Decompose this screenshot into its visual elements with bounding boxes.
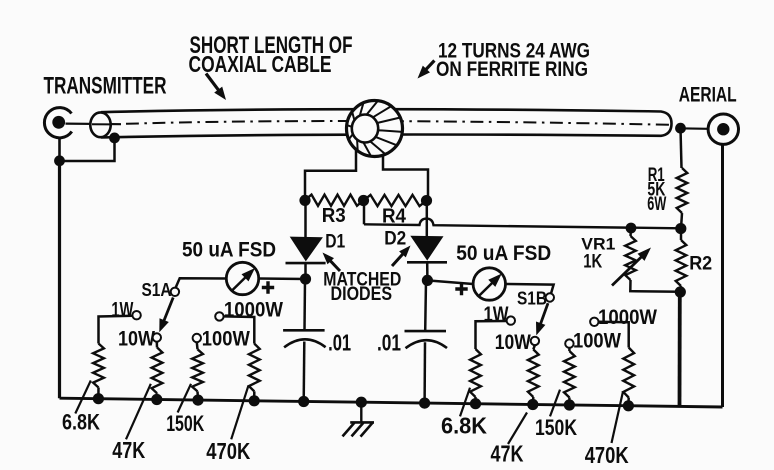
svg-text:S1A: S1A <box>142 280 172 300</box>
node junction 6.8K left on bus <box>93 393 104 404</box>
svg-text:R4: R4 <box>382 206 407 228</box>
svg-text:6.8K: 6.8K <box>62 409 100 434</box>
wire aerial drop right side <box>721 145 724 407</box>
svg-text:100W: 100W <box>202 326 251 350</box>
resistor R3 <box>305 195 364 206</box>
node junction 47K right on bus <box>527 399 538 410</box>
node junction R2 bottom <box>675 286 686 297</box>
leader slash 470K right <box>612 392 624 444</box>
wire 1000W contact to 470K left <box>224 316 255 343</box>
wire C1 bottom lead <box>302 342 305 402</box>
svg-text:6.8K: 6.8K <box>441 412 487 438</box>
wire D1 column upper <box>304 200 307 237</box>
connector J1 transmitter socket <box>44 108 71 138</box>
wire R3/R4 midpoint drop <box>363 201 366 225</box>
svg-text:47K: 47K <box>112 437 145 463</box>
switch contact 10W left <box>153 333 161 341</box>
resistor 6.8K right <box>470 349 481 397</box>
wire R1 top lead <box>681 128 682 168</box>
node junction 150K left on bus <box>192 395 203 406</box>
annotation arrow to D2 <box>392 251 406 266</box>
node junction 47K left on bus <box>151 394 162 405</box>
resistor 6.8K left <box>93 344 104 388</box>
wire D1 junction down to C1 <box>303 279 306 330</box>
node junction D2 cathode <box>422 275 433 286</box>
switch contact 100W left <box>193 334 201 342</box>
svg-text:.01: .01 <box>328 329 351 355</box>
resistor 150K left <box>192 349 203 391</box>
wire 100W contact to 150K left <box>196 342 199 349</box>
wire M2 to D2 junction <box>427 280 473 284</box>
wire 100W contact to 150K right <box>568 348 571 351</box>
switch S1A pole contact <box>171 288 179 296</box>
wire cable end to aerial connector <box>678 127 708 130</box>
connector J2 aerial socket <box>708 114 738 144</box>
svg-text:.01: .01 <box>377 329 401 355</box>
leader slash 150K right <box>550 390 560 417</box>
switch contact 100W right <box>565 339 573 347</box>
wire M1 to S1A pole <box>176 278 227 288</box>
svg-text:ON FERRITE RING: ON FERRITE RING <box>436 58 588 81</box>
node junction C1 on bus <box>298 396 309 407</box>
leader slash 470K left <box>231 386 248 440</box>
wire left ground rail down <box>58 137 61 161</box>
annotation arrow to coax cable <box>206 74 221 94</box>
svg-text:D1: D1 <box>325 231 345 252</box>
meter M1 50uA <box>226 262 258 294</box>
svg-text:50 uA FSD: 50 uA FSD <box>456 242 551 265</box>
node junction R3 left <box>299 195 310 206</box>
svg-text:470K: 470K <box>206 438 250 464</box>
node junction VR1 top <box>626 223 637 234</box>
svg-text:TRANSMITTER: TRANSMITTER <box>44 73 167 100</box>
resistor R2 <box>676 240 687 286</box>
resistor 150K right <box>564 351 575 398</box>
wire M1 to D1 junction <box>259 277 306 280</box>
diode D1 <box>290 237 323 262</box>
wire R1 bottom lead <box>681 213 682 229</box>
svg-text:R2: R2 <box>689 252 712 274</box>
wire coax shield to transmitter ground <box>60 138 115 161</box>
svg-text:470K: 470K <box>585 442 629 468</box>
leader slash 6.8K right <box>460 388 470 417</box>
resistor 47K left <box>152 347 163 393</box>
svg-text:AERIAL: AERIAL <box>679 83 737 106</box>
node junction 150K right on bus <box>564 399 575 410</box>
wire D2 junction down to C2 <box>424 280 427 331</box>
polarity plus left <box>262 281 274 293</box>
wire D2 cathode to junction <box>426 262 429 280</box>
svg-text:10W: 10W <box>118 326 156 350</box>
capacitor C1 <box>283 329 325 332</box>
leader slash 47K right <box>508 413 527 445</box>
wire bottom ground bus <box>60 398 723 407</box>
svg-text:150K: 150K <box>535 415 577 440</box>
wire centre conductor through left ellipse <box>92 123 112 125</box>
node junction R1/R2 <box>675 223 686 234</box>
switch S1B wiper arm <box>539 303 548 328</box>
switch contact 1W left <box>132 311 140 319</box>
resistor R4 <box>364 195 427 206</box>
diode D2 <box>410 236 443 261</box>
switch contact 1W right <box>507 316 515 324</box>
node junction D1 cathode <box>300 273 311 284</box>
polarity plus right <box>455 283 467 295</box>
ferrite ring toroid T1 <box>347 101 403 157</box>
svg-text:S1B: S1B <box>517 289 547 309</box>
svg-text:1W: 1W <box>111 298 133 322</box>
wire coax centre dash-dot line <box>126 121 670 125</box>
svg-text:COAXIAL CABLE: COAXIAL CABLE <box>189 51 332 77</box>
node junction coax end / aerial <box>675 123 686 134</box>
switch contact 10W right <box>531 337 539 345</box>
node junction R3/R4 mid <box>358 195 369 206</box>
node junction 470K left on bus <box>249 395 260 406</box>
wire D2 column upper <box>426 201 429 236</box>
node junction on coax shield left <box>109 133 120 144</box>
potentiometer VR1 arrow <box>612 253 645 285</box>
node junction 470K right on bus <box>623 400 634 411</box>
leader slash 150K left <box>178 384 191 413</box>
svg-text:1K: 1K <box>583 250 602 272</box>
capacitor C2 <box>405 330 447 333</box>
resistor R1 <box>677 168 688 213</box>
resistor 47K right <box>528 349 539 397</box>
svg-text:100W: 100W <box>573 329 622 353</box>
coax cable left end ellipse <box>90 112 110 137</box>
node junction left ground corner <box>54 155 65 166</box>
svg-text:D2: D2 <box>384 228 406 249</box>
potentiometer VR1 <box>625 236 636 280</box>
ground chassis symbol <box>360 402 362 422</box>
annotation arrow to ferrite ring <box>423 61 435 73</box>
svg-text:R3: R3 <box>322 205 346 227</box>
switch S1A wiper arm <box>162 298 173 326</box>
node junction C2 on bus <box>419 398 430 409</box>
svg-text:10W: 10W <box>495 330 532 354</box>
wire transmitter centre conductor <box>66 122 122 125</box>
wire 1W contact to 6.8K right <box>476 321 507 349</box>
svg-text:150K: 150K <box>166 411 204 436</box>
leader slash 47K left <box>126 384 151 440</box>
wire 10W contact to 47K left <box>156 342 159 348</box>
wire sense line with hop over D2 column <box>364 219 681 229</box>
svg-text:6W: 6W <box>647 194 666 215</box>
coax cable body <box>101 109 672 137</box>
svg-text:47K: 47K <box>491 441 524 467</box>
switch contact 1000W left <box>215 312 223 320</box>
svg-text:DIODES: DIODES <box>331 284 393 305</box>
node junction 6.8K right on bus <box>470 398 481 409</box>
node junction ground on bus <box>356 397 367 408</box>
svg-text:50 uA FSD: 50 uA FSD <box>182 238 276 261</box>
meter M2 50uA <box>473 268 505 300</box>
wire C2 bottom lead <box>423 342 426 403</box>
switch S1B pole contact <box>546 293 554 301</box>
wire 1W contact to 6.8K left <box>99 316 133 344</box>
resistor 470K right <box>623 348 634 398</box>
node junction R4 right <box>421 195 432 206</box>
switch contact 1000W right <box>590 318 598 326</box>
resistor 470K left <box>249 344 260 392</box>
wire ferrite winding left leg <box>305 149 356 202</box>
leader slash 6.8K left <box>75 381 91 414</box>
wire 10W contact to 47K right <box>533 345 535 349</box>
wire M2 to S1B pole <box>506 284 554 294</box>
wire thick link R2 bottom to bus <box>678 292 682 406</box>
annotation arrow to D1 <box>327 258 340 271</box>
wire ferrite winding right leg <box>383 154 428 201</box>
wire D1 cathode to junction <box>304 263 307 279</box>
wire 1000W contact to 470K right <box>599 322 629 348</box>
